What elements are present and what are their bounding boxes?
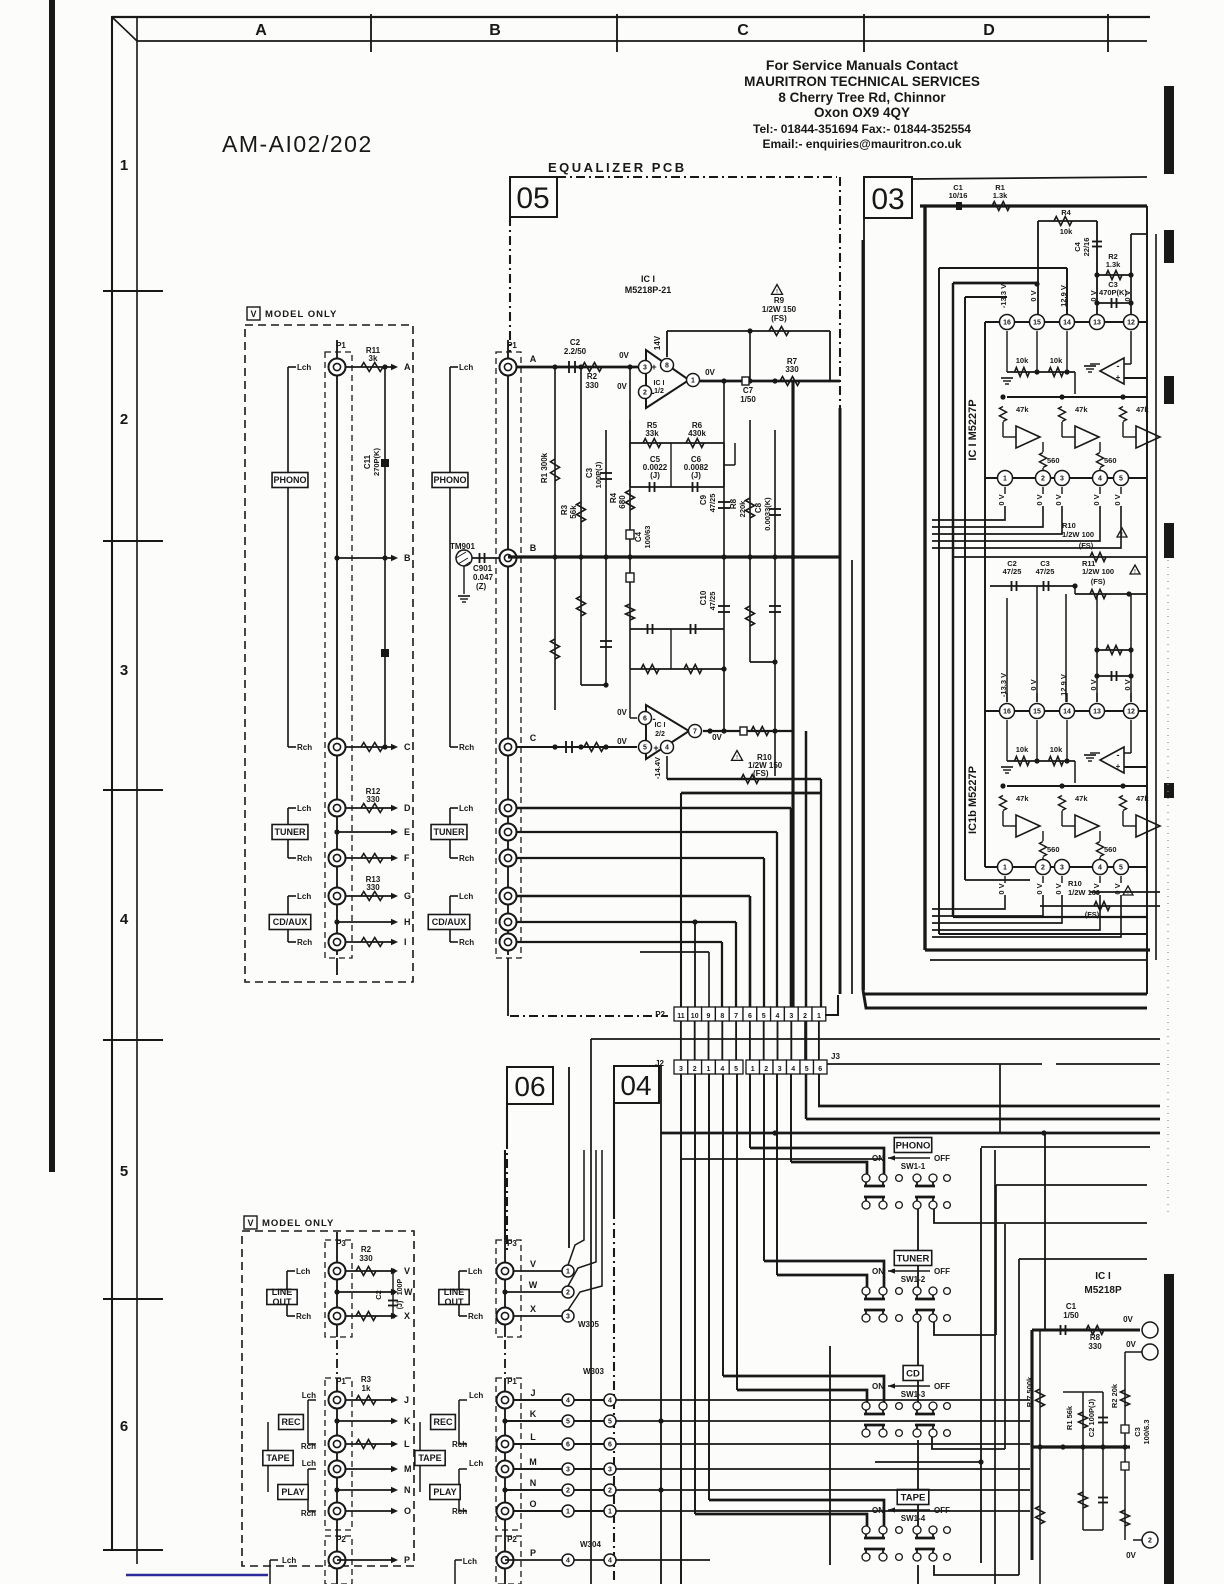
svg-text:Rch: Rch bbox=[459, 938, 474, 947]
svg-text:5: 5 bbox=[566, 1419, 570, 1426]
svg-text:3: 3 bbox=[566, 1314, 570, 1321]
svg-text:H: H bbox=[404, 917, 411, 927]
svg-text:3: 3 bbox=[679, 1066, 683, 1073]
svg-text:2: 2 bbox=[803, 1013, 807, 1020]
svg-text:1: 1 bbox=[566, 1269, 570, 1276]
svg-text:R1 56k: R1 56k bbox=[1065, 1405, 1074, 1430]
svg-text:330: 330 bbox=[1088, 1342, 1102, 1351]
svg-text:IC I: IC I bbox=[1095, 1271, 1111, 1282]
svg-text:330: 330 bbox=[359, 1254, 373, 1263]
svg-text:330: 330 bbox=[366, 795, 380, 804]
svg-text:8: 8 bbox=[720, 1013, 724, 1020]
svg-text:MODEL ONLY: MODEL ONLY bbox=[265, 309, 337, 320]
svg-text:I: I bbox=[404, 937, 407, 947]
svg-text:5: 5 bbox=[734, 1066, 738, 1073]
svg-text:R2 20k: R2 20k bbox=[1110, 1383, 1119, 1408]
svg-text:0V: 0V bbox=[712, 733, 722, 742]
svg-text:For Service Manuals Contact: For Service Manuals Contact bbox=[766, 57, 959, 73]
svg-text:12: 12 bbox=[1127, 709, 1135, 716]
svg-text:EQUALIZER PCB: EQUALIZER PCB bbox=[548, 160, 687, 175]
svg-text:C2 100P(J): C2 100P(J) bbox=[1087, 1398, 1096, 1437]
svg-text:IC I: IC I bbox=[654, 380, 665, 387]
svg-text:A: A bbox=[404, 362, 411, 372]
svg-text:1/50: 1/50 bbox=[740, 395, 756, 404]
svg-text:3: 3 bbox=[789, 1013, 793, 1020]
svg-text:9: 9 bbox=[707, 1013, 711, 1020]
svg-text:680: 680 bbox=[618, 495, 627, 509]
svg-text:1: 1 bbox=[707, 1066, 711, 1073]
svg-text:P1: P1 bbox=[507, 1377, 517, 1386]
svg-text:3: 3 bbox=[608, 1467, 612, 1474]
svg-text:330: 330 bbox=[585, 381, 599, 390]
svg-text:W: W bbox=[529, 1280, 538, 1290]
svg-text:Lch: Lch bbox=[469, 1391, 483, 1400]
svg-text:V: V bbox=[247, 1218, 253, 1228]
svg-text:R3: R3 bbox=[560, 504, 569, 515]
svg-text:C: C bbox=[404, 742, 411, 752]
svg-text:W305: W305 bbox=[578, 1320, 599, 1329]
svg-text:(FS): (FS) bbox=[753, 769, 769, 778]
svg-text:(FS): (FS) bbox=[1085, 910, 1100, 919]
svg-text:14: 14 bbox=[1063, 320, 1071, 327]
svg-text:K: K bbox=[404, 1416, 411, 1426]
svg-text:Rch: Rch bbox=[459, 743, 474, 752]
svg-text:3: 3 bbox=[778, 1066, 782, 1073]
svg-text:05: 05 bbox=[516, 182, 549, 215]
svg-text:Email:- enquiries@mauritron.co: Email:- enquiries@mauritron.co.uk bbox=[762, 137, 961, 151]
svg-text:1/2: 1/2 bbox=[654, 388, 664, 395]
svg-text:10k: 10k bbox=[1050, 356, 1063, 365]
svg-text:4: 4 bbox=[608, 1398, 612, 1405]
svg-text:1: 1 bbox=[1003, 476, 1007, 483]
svg-text:Lch: Lch bbox=[468, 1267, 482, 1276]
svg-text:1: 1 bbox=[566, 1509, 570, 1516]
svg-text:R3: R3 bbox=[361, 1375, 372, 1384]
svg-text:Lch: Lch bbox=[297, 892, 311, 901]
svg-text:SW1-4: SW1-4 bbox=[901, 1514, 926, 1523]
svg-text:0 V: 0 V bbox=[1054, 883, 1063, 894]
svg-text:56k: 56k bbox=[569, 505, 578, 519]
svg-text:1: 1 bbox=[608, 1509, 612, 1516]
svg-text:22/16: 22/16 bbox=[1082, 238, 1091, 257]
svg-text:P2: P2 bbox=[655, 1010, 665, 1019]
svg-text:2: 2 bbox=[764, 1066, 768, 1073]
svg-text:OFF: OFF bbox=[934, 1382, 950, 1391]
svg-text:Lch: Lch bbox=[469, 1459, 483, 1468]
svg-text:1: 1 bbox=[817, 1013, 821, 1020]
svg-text:100/6.3: 100/6.3 bbox=[1142, 1419, 1151, 1444]
svg-text:13: 13 bbox=[1093, 320, 1101, 327]
svg-text:3: 3 bbox=[120, 662, 128, 679]
svg-text:REC: REC bbox=[433, 1417, 453, 1427]
svg-text:C7: C7 bbox=[743, 386, 754, 395]
svg-text:Lch: Lch bbox=[282, 1556, 296, 1565]
svg-text:R1 300k: R1 300k bbox=[540, 452, 549, 483]
svg-text:0V: 0V bbox=[617, 382, 627, 391]
svg-text:16: 16 bbox=[1003, 709, 1011, 716]
svg-text:6: 6 bbox=[643, 716, 647, 723]
svg-text:5: 5 bbox=[643, 745, 647, 752]
svg-text:1: 1 bbox=[691, 378, 695, 385]
svg-text:D: D bbox=[983, 22, 995, 39]
svg-text:10/16: 10/16 bbox=[949, 191, 968, 200]
svg-text:4: 4 bbox=[566, 1558, 570, 1565]
svg-text:ON: ON bbox=[872, 1154, 884, 1163]
svg-text:P3: P3 bbox=[507, 1239, 517, 1248]
svg-text:560: 560 bbox=[1047, 456, 1060, 465]
svg-text:0 V: 0 V bbox=[1035, 494, 1044, 505]
svg-text:2/2: 2/2 bbox=[655, 731, 665, 738]
svg-text:R2: R2 bbox=[587, 372, 598, 381]
svg-text:4: 4 bbox=[720, 1066, 724, 1073]
svg-text:7: 7 bbox=[693, 729, 697, 736]
svg-text:1/2W 150: 1/2W 150 bbox=[762, 305, 797, 314]
svg-text:0 V: 0 V bbox=[997, 883, 1006, 894]
svg-text:Lch: Lch bbox=[297, 363, 311, 372]
svg-text:0 V: 0 V bbox=[1123, 290, 1132, 301]
svg-text:B: B bbox=[530, 543, 537, 553]
svg-text:J: J bbox=[404, 1395, 409, 1405]
svg-text:8: 8 bbox=[665, 363, 669, 370]
svg-text:OUT: OUT bbox=[273, 1297, 293, 1307]
svg-text:04: 04 bbox=[620, 1070, 651, 1101]
svg-text:Rch: Rch bbox=[297, 743, 312, 752]
svg-text:0 V: 0 V bbox=[997, 494, 1006, 505]
svg-text:X: X bbox=[530, 1304, 536, 1314]
svg-text:TUNER: TUNER bbox=[275, 827, 306, 837]
svg-text:10k: 10k bbox=[1060, 227, 1073, 236]
svg-text:11: 11 bbox=[677, 1013, 685, 1020]
svg-text:V: V bbox=[530, 1259, 536, 1269]
svg-text:L: L bbox=[404, 1439, 410, 1449]
svg-text:R9: R9 bbox=[774, 296, 785, 305]
svg-text:4: 4 bbox=[791, 1066, 795, 1073]
svg-text:SW1-2: SW1-2 bbox=[901, 1275, 926, 1284]
svg-text:C3: C3 bbox=[585, 467, 594, 478]
svg-text:1/2W 100: 1/2W 100 bbox=[1062, 530, 1094, 539]
svg-text:(J): (J) bbox=[691, 471, 701, 480]
svg-text:-: - bbox=[1117, 361, 1120, 371]
svg-text:4: 4 bbox=[566, 1398, 570, 1405]
svg-text:4: 4 bbox=[776, 1013, 780, 1020]
svg-text:J3: J3 bbox=[831, 1052, 840, 1061]
svg-text:Oxon OX9 4QY: Oxon OX9 4QY bbox=[814, 105, 910, 120]
svg-text:REC: REC bbox=[281, 1417, 301, 1427]
svg-text:+: + bbox=[653, 743, 658, 753]
svg-text:2: 2 bbox=[1148, 1538, 1152, 1545]
svg-text:6: 6 bbox=[748, 1013, 752, 1020]
svg-text:P: P bbox=[530, 1548, 536, 1558]
svg-text:16: 16 bbox=[1003, 320, 1011, 327]
svg-text:M: M bbox=[404, 1464, 412, 1474]
svg-text:1.3k: 1.3k bbox=[993, 191, 1008, 200]
svg-text:CD/AUX: CD/AUX bbox=[432, 917, 467, 927]
svg-text:R8: R8 bbox=[1090, 1333, 1101, 1342]
svg-text:3: 3 bbox=[1060, 865, 1064, 872]
svg-text:E: E bbox=[404, 827, 410, 837]
svg-text:W304: W304 bbox=[580, 1540, 601, 1549]
svg-text:2.2/50: 2.2/50 bbox=[564, 347, 587, 356]
svg-text:Lch: Lch bbox=[296, 1267, 310, 1276]
svg-text:ON: ON bbox=[872, 1267, 884, 1276]
svg-text:560: 560 bbox=[1047, 845, 1060, 854]
svg-text:C10: C10 bbox=[699, 590, 708, 605]
svg-text:03: 03 bbox=[871, 183, 904, 216]
svg-text:TAPE: TAPE bbox=[901, 1492, 926, 1503]
svg-text:-14.4V: -14.4V bbox=[653, 757, 662, 779]
svg-text:Lch: Lch bbox=[302, 1459, 316, 1468]
svg-text:C: C bbox=[737, 22, 749, 39]
svg-text:5: 5 bbox=[1119, 476, 1123, 483]
svg-text:Rch: Rch bbox=[468, 1312, 483, 1321]
svg-text:0V: 0V bbox=[1123, 1315, 1133, 1324]
svg-text:Rch: Rch bbox=[459, 854, 474, 863]
svg-text:0 V: 0 V bbox=[1113, 883, 1122, 894]
svg-text:+: + bbox=[651, 362, 656, 372]
svg-text:12: 12 bbox=[1127, 320, 1135, 327]
svg-text:47k: 47k bbox=[1016, 405, 1029, 414]
svg-text:0 V: 0 V bbox=[1035, 883, 1044, 894]
svg-text:V: V bbox=[404, 1266, 410, 1276]
svg-text:3k: 3k bbox=[369, 354, 378, 363]
svg-text:0.047: 0.047 bbox=[473, 573, 494, 582]
svg-text:Rch: Rch bbox=[297, 938, 312, 947]
svg-text:C1: C1 bbox=[1066, 1302, 1077, 1311]
svg-text:Rch: Rch bbox=[301, 1509, 316, 1518]
svg-text:560: 560 bbox=[1104, 845, 1117, 854]
svg-text:Rch: Rch bbox=[301, 1442, 316, 1451]
svg-text:4: 4 bbox=[665, 745, 669, 752]
svg-text:2: 2 bbox=[566, 1290, 570, 1297]
svg-text:100P(J): 100P(J) bbox=[594, 461, 603, 488]
svg-text:47/25: 47/25 bbox=[708, 494, 717, 513]
svg-text:Rch: Rch bbox=[297, 854, 312, 863]
svg-text:IC I M5227P: IC I M5227P bbox=[967, 399, 979, 460]
svg-text:4: 4 bbox=[120, 911, 129, 928]
svg-text:47k: 47k bbox=[1075, 794, 1088, 803]
svg-text:TAPE: TAPE bbox=[418, 1453, 441, 1463]
svg-text:PLAY: PLAY bbox=[281, 1487, 304, 1497]
svg-text:0V: 0V bbox=[617, 708, 627, 717]
svg-text:10k: 10k bbox=[1050, 745, 1063, 754]
svg-text:J2: J2 bbox=[655, 1059, 664, 1068]
svg-text:TUNER: TUNER bbox=[897, 1253, 930, 1264]
svg-text:R10: R10 bbox=[1068, 879, 1082, 888]
svg-text:1/2W 100: 1/2W 100 bbox=[1082, 567, 1114, 576]
svg-text:06: 06 bbox=[514, 1071, 545, 1102]
svg-text:PHONO: PHONO bbox=[433, 475, 466, 485]
svg-text:CD/AUX: CD/AUX bbox=[273, 917, 308, 927]
svg-text:R4: R4 bbox=[1061, 208, 1071, 217]
svg-text:47k: 47k bbox=[1016, 794, 1029, 803]
svg-text:B: B bbox=[489, 22, 501, 39]
svg-text:1k: 1k bbox=[362, 1384, 371, 1393]
svg-text:L: L bbox=[530, 1432, 536, 1442]
svg-text:PLAY: PLAY bbox=[433, 1487, 456, 1497]
svg-text:2: 2 bbox=[608, 1488, 612, 1495]
svg-text:430k: 430k bbox=[688, 429, 706, 438]
svg-text:0V: 0V bbox=[617, 737, 627, 746]
svg-text:C2: C2 bbox=[374, 1290, 383, 1300]
svg-text:N: N bbox=[530, 1478, 537, 1488]
svg-text:C4: C4 bbox=[1073, 241, 1082, 251]
svg-text:0.0033(K): 0.0033(K) bbox=[763, 497, 772, 531]
svg-text:0 V: 0 V bbox=[1029, 290, 1038, 301]
svg-text:1/50: 1/50 bbox=[1063, 1311, 1079, 1320]
svg-text:6: 6 bbox=[120, 1418, 128, 1435]
svg-text:4: 4 bbox=[1098, 476, 1102, 483]
svg-text:0 V: 0 V bbox=[1113, 494, 1122, 505]
svg-text:ON: ON bbox=[872, 1382, 884, 1391]
svg-text:0 V: 0 V bbox=[1089, 290, 1098, 301]
svg-text:-: - bbox=[1117, 750, 1120, 760]
svg-text:33k: 33k bbox=[645, 429, 659, 438]
svg-text:47k: 47k bbox=[1075, 405, 1088, 414]
svg-text:SW1-3: SW1-3 bbox=[901, 1390, 926, 1399]
svg-text:5: 5 bbox=[608, 1419, 612, 1426]
svg-text:14V: 14V bbox=[653, 335, 662, 350]
svg-text:K: K bbox=[530, 1409, 537, 1419]
svg-text:6: 6 bbox=[566, 1442, 570, 1449]
svg-text:N: N bbox=[404, 1485, 411, 1495]
svg-text:0V: 0V bbox=[705, 368, 715, 377]
svg-text:(Z): (Z) bbox=[476, 582, 487, 591]
svg-text:(FS): (FS) bbox=[1091, 577, 1106, 586]
svg-text:47/25: 47/25 bbox=[1036, 567, 1055, 576]
svg-text:R 7 500k: R 7 500k bbox=[1025, 1376, 1034, 1407]
svg-text:C2: C2 bbox=[570, 338, 581, 347]
svg-text:IC1b M5227P: IC1b M5227P bbox=[967, 766, 979, 834]
svg-text:Rch: Rch bbox=[452, 1440, 467, 1449]
svg-text:LINE: LINE bbox=[444, 1287, 465, 1297]
svg-text:0 V: 0 V bbox=[1054, 494, 1063, 505]
svg-text:OFF: OFF bbox=[934, 1154, 950, 1163]
svg-text:560: 560 bbox=[1104, 456, 1117, 465]
svg-text:3: 3 bbox=[1060, 476, 1064, 483]
svg-text:220k: 220k bbox=[738, 500, 747, 518]
svg-text:C4: C4 bbox=[634, 531, 643, 542]
svg-text:M5218P-21: M5218P-21 bbox=[625, 285, 672, 295]
svg-text:47/25: 47/25 bbox=[708, 592, 717, 611]
svg-text:6: 6 bbox=[818, 1066, 822, 1073]
svg-text:PHONO: PHONO bbox=[273, 475, 306, 485]
svg-text:10k: 10k bbox=[1016, 745, 1029, 754]
svg-text:15: 15 bbox=[1033, 320, 1041, 327]
svg-text:2: 2 bbox=[643, 390, 647, 397]
svg-text:Lch: Lch bbox=[459, 892, 473, 901]
svg-text:Lch: Lch bbox=[459, 363, 473, 372]
svg-text:C901: C901 bbox=[473, 564, 493, 573]
svg-text:Tel:- 01844-351694 Fax:- 01844: Tel:- 01844-351694 Fax:- 01844-352554 bbox=[753, 122, 971, 136]
svg-text:(FS): (FS) bbox=[771, 314, 787, 323]
svg-text:R8: R8 bbox=[729, 498, 738, 509]
svg-text:1: 1 bbox=[120, 157, 128, 174]
svg-text:1.3k: 1.3k bbox=[1106, 260, 1121, 269]
svg-text:P2: P2 bbox=[507, 1535, 517, 1544]
svg-text:V: V bbox=[250, 309, 256, 319]
svg-text:TUNER: TUNER bbox=[434, 827, 465, 837]
svg-text:!: ! bbox=[736, 755, 738, 761]
svg-text:Lch: Lch bbox=[463, 1557, 477, 1566]
svg-text:O: O bbox=[529, 1499, 536, 1509]
svg-text:PHONO: PHONO bbox=[896, 1140, 931, 1151]
svg-text:C9: C9 bbox=[699, 494, 708, 505]
svg-text:IC I: IC I bbox=[641, 274, 655, 284]
svg-text:0V: 0V bbox=[619, 351, 629, 360]
svg-text:8 Cherry Tree Rd, Chinnor: 8 Cherry Tree Rd, Chinnor bbox=[778, 90, 946, 105]
svg-text:D: D bbox=[404, 803, 411, 813]
svg-text:3: 3 bbox=[566, 1467, 570, 1474]
svg-text:+: + bbox=[1116, 762, 1121, 771]
svg-text:5: 5 bbox=[805, 1066, 809, 1073]
svg-text:0V: 0V bbox=[1126, 1551, 1136, 1560]
svg-text:(J): (J) bbox=[397, 1301, 404, 1310]
svg-text:3: 3 bbox=[643, 365, 647, 372]
svg-text:10k: 10k bbox=[1016, 356, 1029, 365]
svg-text:F: F bbox=[404, 853, 410, 863]
svg-text:C11: C11 bbox=[363, 454, 372, 469]
svg-text:330: 330 bbox=[366, 883, 380, 892]
svg-text:P: P bbox=[404, 1555, 410, 1565]
svg-text:6: 6 bbox=[608, 1442, 612, 1449]
svg-text:100/63: 100/63 bbox=[643, 526, 652, 549]
svg-text:5: 5 bbox=[1119, 865, 1123, 872]
svg-text:Lch: Lch bbox=[302, 1391, 316, 1400]
svg-text:X: X bbox=[404, 1311, 410, 1321]
svg-text:MODEL ONLY: MODEL ONLY bbox=[262, 1218, 334, 1229]
svg-text:15: 15 bbox=[1033, 709, 1041, 716]
svg-text:CD: CD bbox=[906, 1368, 920, 1379]
svg-text:LINE: LINE bbox=[272, 1287, 293, 1297]
svg-text:1: 1 bbox=[1003, 865, 1007, 872]
svg-text:R10: R10 bbox=[1062, 521, 1076, 530]
svg-text:5: 5 bbox=[120, 1163, 128, 1180]
svg-text:5: 5 bbox=[762, 1013, 766, 1020]
svg-text:2: 2 bbox=[120, 411, 128, 428]
svg-text:14: 14 bbox=[1063, 709, 1071, 716]
svg-text:R2: R2 bbox=[361, 1245, 372, 1254]
svg-text:OUT: OUT bbox=[445, 1297, 465, 1307]
svg-text:10: 10 bbox=[691, 1013, 699, 1020]
svg-text:0V: 0V bbox=[1126, 1340, 1136, 1349]
svg-text:R4: R4 bbox=[609, 492, 618, 503]
svg-text:A: A bbox=[530, 354, 537, 364]
svg-text:12.9 V: 12.9 V bbox=[1059, 285, 1068, 307]
svg-text:4: 4 bbox=[1098, 865, 1102, 872]
svg-text:AM-AI02/202: AM-AI02/202 bbox=[222, 131, 373, 157]
svg-text:M5218P: M5218P bbox=[1084, 1285, 1122, 1296]
svg-text:O: O bbox=[404, 1506, 411, 1516]
svg-text:+: + bbox=[1116, 373, 1121, 382]
svg-text:13: 13 bbox=[1093, 709, 1101, 716]
svg-text:J: J bbox=[530, 1388, 535, 1398]
svg-text:1: 1 bbox=[751, 1066, 755, 1073]
svg-text:270P(K): 270P(K) bbox=[372, 448, 381, 476]
svg-text:Rch: Rch bbox=[452, 1507, 467, 1516]
svg-text:47/25: 47/25 bbox=[1003, 567, 1022, 576]
svg-text:Lch: Lch bbox=[459, 804, 473, 813]
svg-text:TAPE: TAPE bbox=[266, 1453, 289, 1463]
svg-text:Rch: Rch bbox=[296, 1312, 311, 1321]
svg-text:M: M bbox=[529, 1457, 537, 1467]
svg-text:2: 2 bbox=[693, 1066, 697, 1073]
svg-text:W303: W303 bbox=[583, 1367, 604, 1376]
svg-text:SW1-1: SW1-1 bbox=[901, 1162, 926, 1171]
svg-text:C8: C8 bbox=[754, 502, 763, 513]
svg-text:100P: 100P bbox=[397, 1279, 404, 1296]
svg-text:C: C bbox=[530, 733, 537, 743]
svg-text:2: 2 bbox=[566, 1488, 570, 1495]
